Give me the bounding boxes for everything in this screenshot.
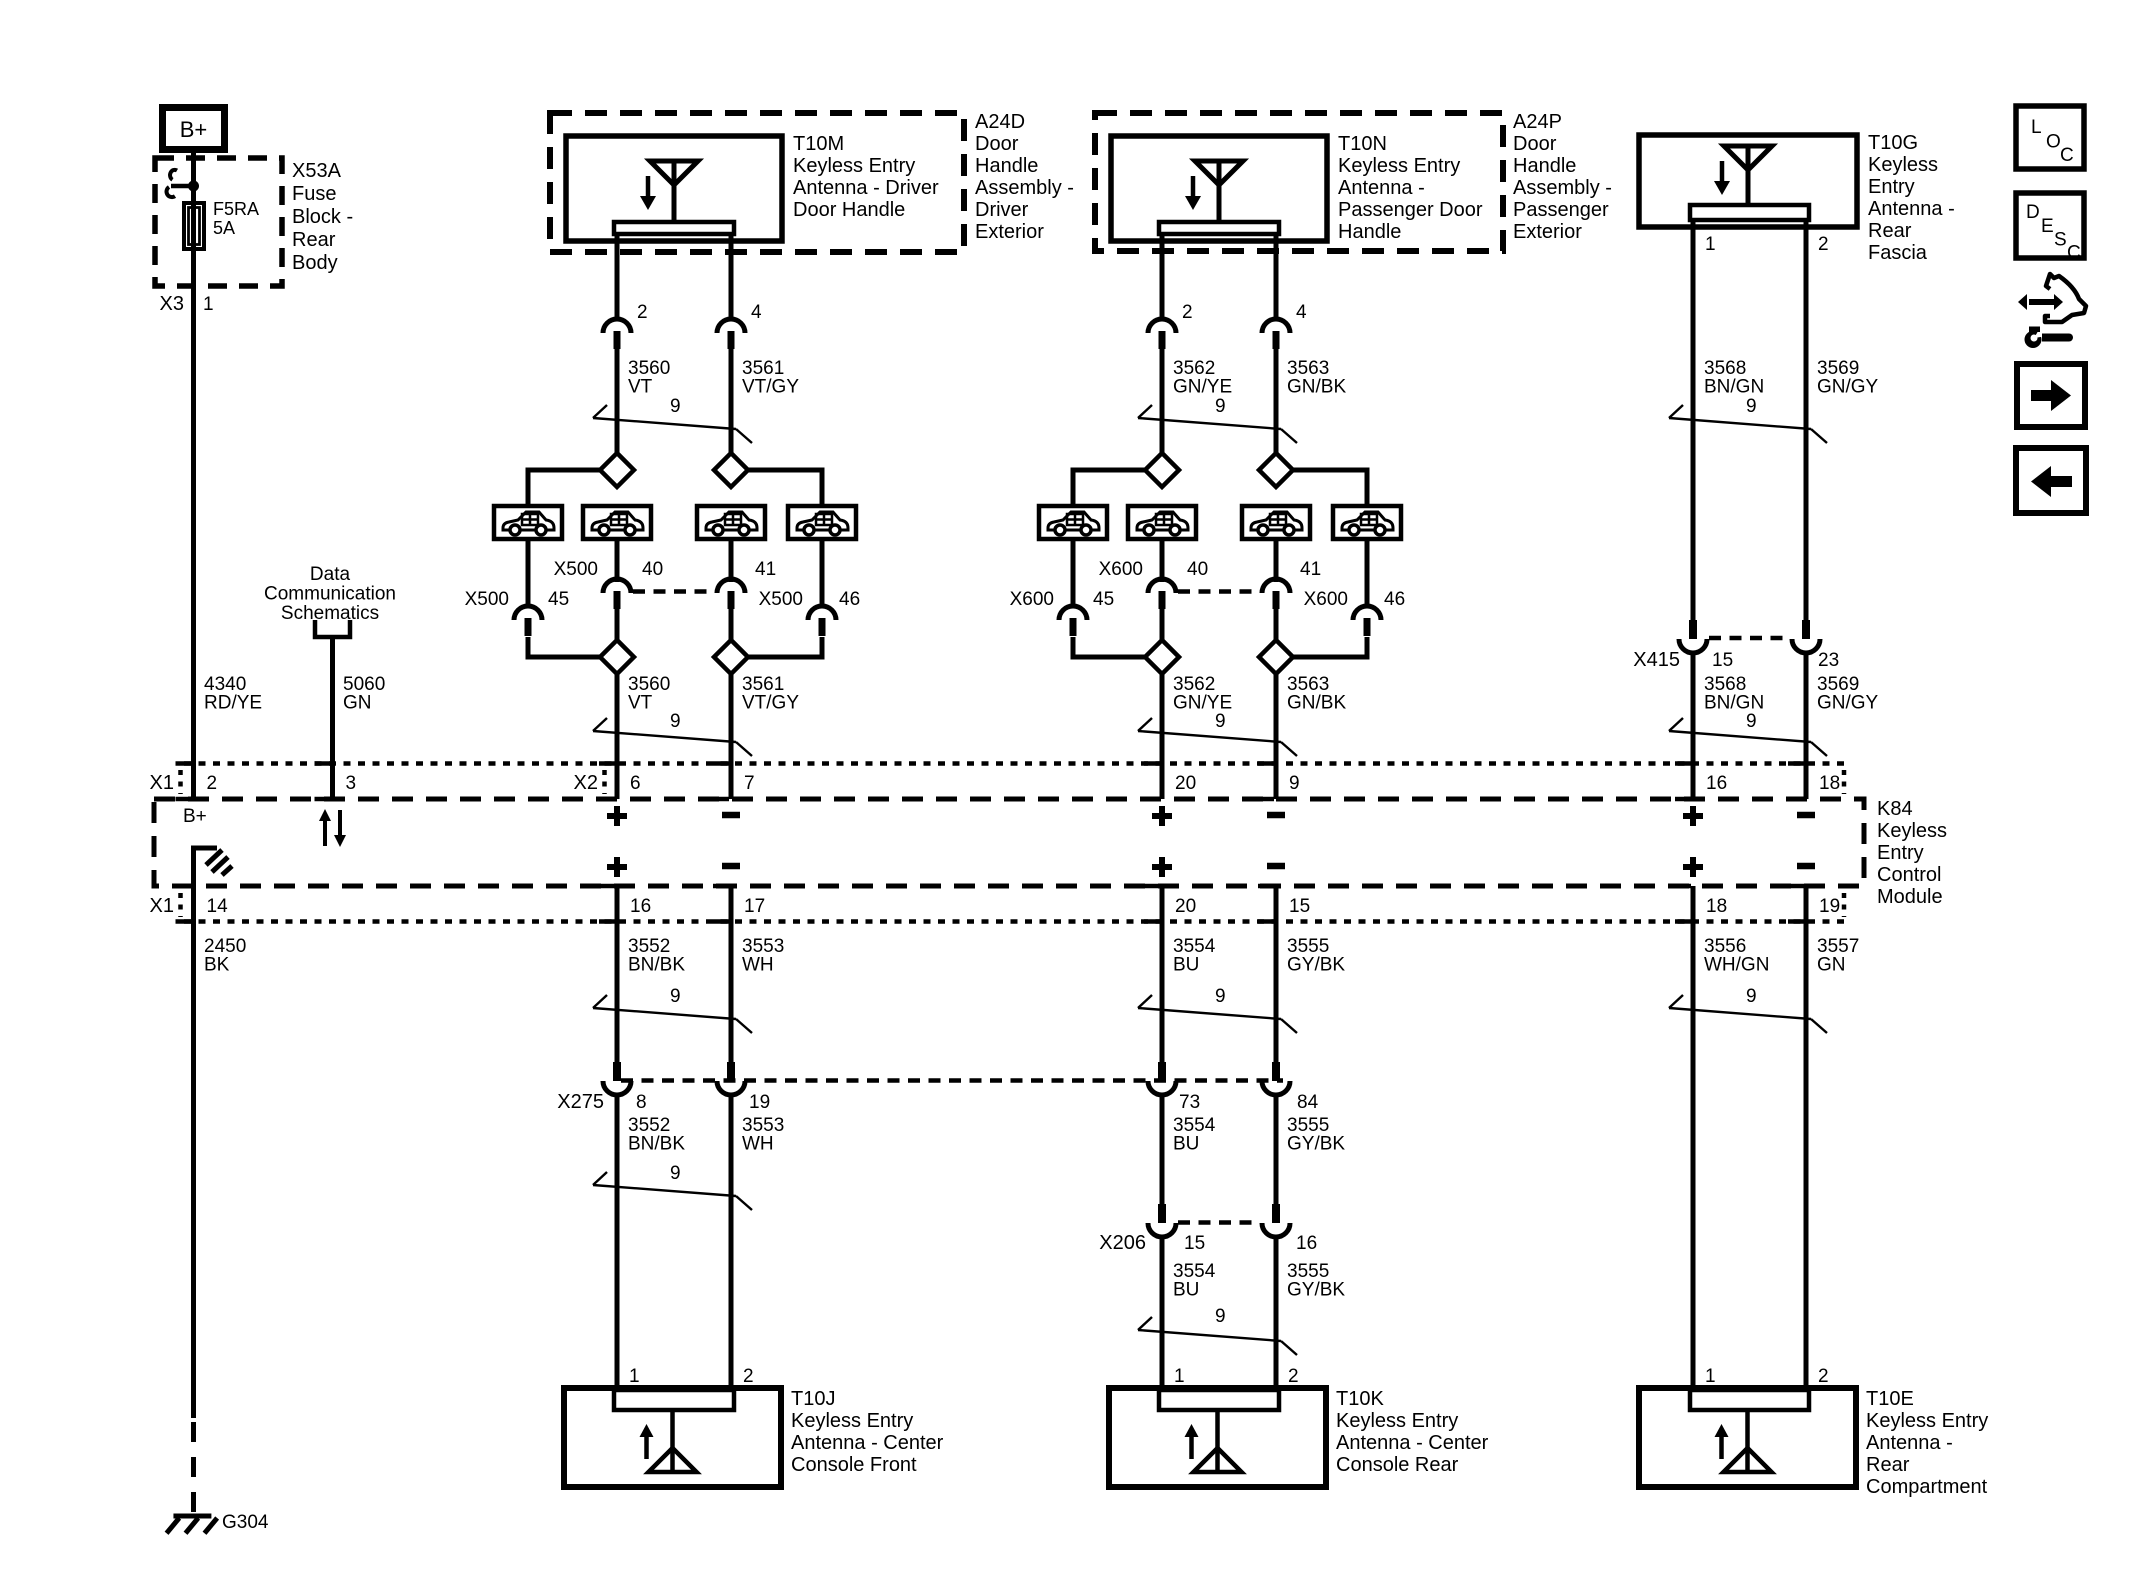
svg-text:X1: X1 bbox=[150, 772, 174, 794]
wire below car box bbox=[820, 539, 825, 608]
svg-text:X500: X500 bbox=[759, 589, 803, 610]
keyless entry antenna T10M box bbox=[566, 136, 782, 241]
branch wire rejoin right bbox=[748, 637, 822, 657]
connector label X3 pin 1 bbox=[160, 293, 214, 315]
wire below connector 41 bbox=[1274, 609, 1279, 641]
svg-text:BN/BK: BN/BK bbox=[628, 1134, 685, 1155]
svg-text:40: 40 bbox=[1187, 559, 1208, 580]
svg-text:T10J: T10J bbox=[791, 1388, 835, 1410]
keyless entry antenna T10G box bbox=[1639, 135, 1857, 227]
wire from antenna pin 4 bbox=[1274, 234, 1279, 319]
wire X275-8 to T10J pin 1 bbox=[615, 1095, 620, 1388]
label X600 45 bbox=[1010, 589, 1115, 610]
wire below car box bbox=[1365, 539, 1370, 608]
svg-text:9: 9 bbox=[670, 396, 681, 417]
in-line connector X275 terminal bbox=[717, 1062, 745, 1095]
wire below connector 40 bbox=[1160, 609, 1165, 641]
svg-text:9: 9 bbox=[1215, 711, 1226, 732]
off-page connector bracket bbox=[315, 620, 350, 637]
svg-text:Console Front: Console Front bbox=[791, 1454, 917, 1476]
svg-text:GN: GN bbox=[1817, 955, 1846, 976]
svg-text:C: C bbox=[2060, 145, 2074, 166]
svg-text:Antenna - Center: Antenna - Center bbox=[1336, 1432, 1489, 1454]
twisted pair symbol bbox=[593, 405, 752, 443]
wire X275-84 to X206 bbox=[1274, 1095, 1279, 1204]
svg-text:RD/YE: RD/YE bbox=[204, 693, 262, 714]
svg-text:20: 20 bbox=[1175, 896, 1196, 917]
module pin 18 tick and number (bottom row) bbox=[1675, 886, 1727, 922]
branch wire rejoin left bbox=[1073, 637, 1145, 657]
dotted separator (top row right) bbox=[1842, 770, 1847, 794]
svg-text:BK: BK bbox=[204, 955, 230, 976]
module antenna return - (pin side) bbox=[1267, 812, 1285, 819]
module pin 2 tick and number (top row) bbox=[176, 764, 218, 800]
svg-text:A24D: A24D bbox=[975, 111, 1025, 133]
wire from module to in-line connector bbox=[729, 886, 734, 1062]
svg-text:Keyless Entry: Keyless Entry bbox=[1338, 155, 1460, 177]
wire 2450 BK from module pin X1-14 bbox=[191, 886, 196, 1418]
svg-text:16: 16 bbox=[1296, 1233, 1317, 1254]
svg-text:T10E: T10E bbox=[1866, 1388, 1914, 1410]
car routing box (left branch) bbox=[1039, 506, 1107, 539]
svg-text:Antenna -: Antenna - bbox=[1338, 177, 1425, 199]
splice diamond bbox=[1145, 453, 1179, 487]
car routing box (wire 1) bbox=[583, 506, 651, 539]
svg-text:4: 4 bbox=[1296, 302, 1307, 323]
nav icon forward arrow box bbox=[2017, 364, 2085, 427]
module antenna drive + (pin side) bbox=[1152, 813, 1172, 819]
twisted pair symbol bbox=[1669, 995, 1827, 1033]
wire below splice bbox=[1274, 674, 1279, 799]
splice diamond bbox=[600, 453, 634, 487]
svg-text:9: 9 bbox=[670, 711, 681, 732]
connector tab of T10M bbox=[614, 222, 734, 234]
twisted pair symbol bbox=[1669, 405, 1827, 443]
svg-text:B+: B+ bbox=[183, 806, 207, 827]
car routing box (left branch) bbox=[494, 506, 562, 539]
svg-text:X415: X415 bbox=[1633, 649, 1680, 671]
svg-text:3: 3 bbox=[346, 773, 357, 794]
svg-text:Antenna -: Antenna - bbox=[1866, 1432, 1953, 1454]
svg-text:Antenna - Center: Antenna - Center bbox=[791, 1432, 944, 1454]
in-line connector X500 cavity 40 bbox=[603, 579, 631, 609]
svg-text:B+: B+ bbox=[180, 117, 208, 142]
svg-text:1: 1 bbox=[1705, 234, 1716, 255]
svg-text:A24P: A24P bbox=[1513, 111, 1562, 133]
connector pin 2 bbox=[603, 319, 631, 349]
svg-text:VT: VT bbox=[628, 693, 653, 714]
svg-text:Exterior: Exterior bbox=[1513, 221, 1582, 243]
svg-text:6: 6 bbox=[630, 773, 641, 794]
svg-text:45: 45 bbox=[1093, 589, 1114, 610]
splice diamond bbox=[1145, 640, 1179, 674]
twisted pair symbol bbox=[1138, 718, 1297, 756]
keyless entry antenna T10J box bbox=[564, 1388, 781, 1487]
svg-text:T10G: T10G bbox=[1868, 132, 1918, 154]
connector tab of T10N bbox=[1159, 222, 1279, 234]
wire below car box bbox=[615, 539, 620, 582]
car routing box (wire 2) bbox=[1242, 506, 1310, 539]
svg-text:46: 46 bbox=[1384, 589, 1405, 610]
svg-text:7: 7 bbox=[744, 773, 755, 794]
svg-text:BU: BU bbox=[1173, 1280, 1199, 1301]
svg-text:73: 73 bbox=[1179, 1092, 1200, 1113]
svg-text:GN/BK: GN/BK bbox=[1287, 377, 1346, 398]
svg-text:19: 19 bbox=[1819, 896, 1840, 917]
svg-text:14: 14 bbox=[207, 896, 229, 917]
twisted pair symbol bbox=[1669, 718, 1827, 756]
svg-text:Keyless Entry: Keyless Entry bbox=[1866, 1410, 1988, 1432]
svg-text:GY/BK: GY/BK bbox=[1287, 955, 1345, 976]
wire segment to splice diamond bbox=[615, 349, 620, 453]
wire 3556 WH/GN to T10E bbox=[1691, 1062, 1696, 1388]
svg-text:Passenger: Passenger bbox=[1513, 199, 1609, 221]
svg-text:G304: G304 bbox=[222, 1512, 269, 1533]
wire from antenna pin 2 bbox=[1160, 234, 1165, 319]
svg-text:BN/GN: BN/GN bbox=[1704, 377, 1764, 398]
svg-text:Keyless Entry: Keyless Entry bbox=[793, 155, 915, 177]
svg-text:GY/BK: GY/BK bbox=[1287, 1134, 1345, 1155]
branch wire to left in-car run bbox=[528, 470, 600, 506]
label X500 40 41 bbox=[554, 559, 777, 580]
svg-text:WH: WH bbox=[742, 955, 774, 976]
svg-text:23: 23 bbox=[1818, 650, 1839, 671]
wire below car box bbox=[1071, 539, 1076, 608]
fuse block X53A dashed box bbox=[155, 158, 282, 286]
module pin 9 tick and number (top row) bbox=[1258, 764, 1300, 800]
in-line connector X206 dashed face bbox=[1178, 1220, 1260, 1225]
antenna symbol bbox=[1715, 1410, 1772, 1472]
splice diamond bbox=[714, 640, 748, 674]
twisted pair symbol bbox=[593, 995, 752, 1033]
wire X206-16 to T10K pin 2 bbox=[1274, 1237, 1279, 1388]
wire below splice bbox=[1160, 674, 1165, 799]
svg-text:84: 84 bbox=[1297, 1092, 1319, 1113]
keyless entry antenna T10N box bbox=[1111, 136, 1327, 241]
svg-text:Communication: Communication bbox=[264, 584, 396, 605]
svg-text:41: 41 bbox=[1300, 559, 1321, 580]
nav icon back arrow box bbox=[2016, 448, 2086, 513]
module pin 16 tick and number (bottom row) bbox=[599, 886, 651, 922]
in-line connector X600 cavity 40 bbox=[1148, 579, 1176, 609]
svg-text:X206: X206 bbox=[1099, 1232, 1146, 1254]
svg-text:Keyless Entry: Keyless Entry bbox=[791, 1410, 913, 1432]
module connector row dotted line (bottom) bbox=[184, 919, 1845, 924]
wire from module to in-line connector bbox=[1160, 886, 1165, 1062]
module internal ground bbox=[194, 848, 233, 886]
svg-text:BN/BK: BN/BK bbox=[628, 955, 685, 976]
svg-text:E: E bbox=[2041, 216, 2054, 237]
svg-text:9: 9 bbox=[1746, 986, 1757, 1007]
svg-text:17: 17 bbox=[744, 896, 765, 917]
svg-text:Data: Data bbox=[310, 564, 351, 585]
twisted pair symbol bbox=[1138, 995, 1297, 1033]
svg-text:Assembly -: Assembly - bbox=[1513, 177, 1612, 199]
svg-text:Rear: Rear bbox=[292, 229, 336, 251]
splice diamond bbox=[714, 453, 748, 487]
module antenna drive + (output side) bbox=[1152, 864, 1172, 870]
connector designator X1 (bottom row) bbox=[150, 893, 181, 917]
car routing box (right branch) bbox=[1333, 506, 1401, 539]
svg-text:40: 40 bbox=[642, 559, 663, 580]
antenna symbol bbox=[640, 161, 698, 222]
svg-text:T10M: T10M bbox=[793, 133, 844, 155]
module antenna return - (pin side) bbox=[722, 812, 740, 819]
connector tab of T10E bbox=[1690, 1390, 1809, 1410]
antenna symbol bbox=[1185, 161, 1243, 222]
nav icon DESC box bbox=[2016, 193, 2084, 264]
svg-text:Driver: Driver bbox=[975, 199, 1029, 221]
in-line connector X206 terminal bbox=[1148, 1204, 1176, 1237]
in-line connector X600 cavity 45 bbox=[1059, 606, 1087, 636]
svg-text:T10K: T10K bbox=[1336, 1388, 1384, 1410]
svg-text:Exterior: Exterior bbox=[975, 221, 1044, 243]
splice diamond bbox=[600, 640, 634, 674]
connector pin 4 bbox=[1262, 319, 1290, 349]
in-line connector X600 cavity 41 bbox=[1262, 579, 1290, 609]
module pin 14 tick and number (bottom row) bbox=[176, 886, 229, 922]
svg-text:X600: X600 bbox=[1304, 589, 1348, 610]
in-line connector X600 cavity 46 bbox=[1353, 606, 1381, 636]
wire X275-19 to T10J pin 2 bbox=[729, 1095, 734, 1388]
connector designator X1 (top row) bbox=[150, 770, 181, 794]
svg-text:18: 18 bbox=[1706, 896, 1727, 917]
svg-text:F5RA: F5RA bbox=[213, 199, 259, 219]
module antenna return - (pin side) bbox=[1797, 812, 1815, 819]
wire below car box bbox=[729, 539, 734, 582]
svg-text:X600: X600 bbox=[1010, 589, 1054, 610]
svg-text:GN/GY: GN/GY bbox=[1817, 693, 1879, 714]
svg-text:Body: Body bbox=[292, 252, 338, 274]
label X275 73 84 bbox=[1179, 1092, 1319, 1113]
module internal serial data arrows bbox=[319, 809, 346, 847]
svg-text:BU: BU bbox=[1173, 1134, 1199, 1155]
svg-text:9: 9 bbox=[670, 1163, 681, 1184]
svg-text:X500: X500 bbox=[554, 559, 598, 580]
svg-text:Keyless: Keyless bbox=[1868, 154, 1938, 176]
svg-text:L: L bbox=[2031, 117, 2042, 138]
svg-text:Antenna - Driver: Antenna - Driver bbox=[793, 177, 939, 199]
dotted separator (bottom row right) bbox=[1842, 893, 1847, 917]
svg-text:1: 1 bbox=[1174, 1366, 1185, 1387]
wire below car box bbox=[526, 539, 531, 608]
car routing box (right branch) bbox=[788, 506, 856, 539]
in-line connector X500 dashed face bbox=[633, 589, 715, 594]
wire from module to in-line connector bbox=[1691, 886, 1696, 1062]
svg-text:Fascia: Fascia bbox=[1868, 242, 1928, 264]
connector tab of T10G bbox=[1690, 205, 1809, 220]
svg-text:2: 2 bbox=[637, 302, 648, 323]
module antenna drive + (output side) bbox=[607, 864, 627, 870]
wire below connector 40 bbox=[615, 609, 620, 641]
module pin 6 tick and number (top row) bbox=[599, 764, 641, 800]
dashed continuation of ground wire bbox=[191, 1422, 196, 1512]
svg-text:WH/GN: WH/GN bbox=[1704, 955, 1769, 976]
connector tab of T10J bbox=[614, 1390, 734, 1410]
module antenna drive + (pin side) bbox=[607, 813, 627, 819]
svg-text:4: 4 bbox=[751, 302, 762, 323]
module pin 7 tick and number (top row) bbox=[713, 764, 755, 800]
svg-text:Door: Door bbox=[975, 133, 1019, 155]
door handle assembly dashed box A24P bbox=[1095, 113, 1503, 251]
in-line connector X500 cavity 45 bbox=[514, 606, 542, 636]
module K84 dashed outline bbox=[154, 799, 1864, 886]
wire segment to splice diamond bbox=[729, 349, 734, 453]
svg-text:41: 41 bbox=[755, 559, 776, 580]
svg-text:2: 2 bbox=[1818, 234, 1829, 255]
svg-text:Rear: Rear bbox=[1866, 1454, 1910, 1476]
in-line connector X275 terminal bbox=[1262, 1062, 1290, 1095]
wire X415 to module pin 16 bbox=[1691, 652, 1696, 799]
svg-text:D: D bbox=[2026, 202, 2040, 223]
svg-text:X1: X1 bbox=[150, 895, 174, 917]
wire 3568 BN/GN from T10G pin 1 bbox=[1691, 220, 1696, 620]
twisted pair symbol bbox=[593, 1172, 752, 1210]
svg-text:15: 15 bbox=[1289, 896, 1310, 917]
label X600 46 bbox=[1304, 589, 1406, 610]
svg-text:Keyless Entry: Keyless Entry bbox=[1336, 1410, 1458, 1432]
svg-text:Rear: Rear bbox=[1868, 220, 1912, 242]
wire segment to splice diamond bbox=[1160, 349, 1165, 453]
svg-text:Keyless: Keyless bbox=[1877, 820, 1947, 842]
svg-text:X3: X3 bbox=[160, 293, 184, 315]
branch wire to left in-car run bbox=[1073, 470, 1145, 506]
svg-text:15: 15 bbox=[1184, 1233, 1205, 1254]
branch wire rejoin right bbox=[1293, 637, 1367, 657]
svg-text:2: 2 bbox=[743, 1366, 754, 1387]
door handle assembly dashed box A24D bbox=[550, 113, 964, 252]
splice diamond bbox=[1259, 640, 1293, 674]
svg-text:X275: X275 bbox=[557, 1091, 604, 1113]
svg-text:2: 2 bbox=[1182, 302, 1193, 323]
svg-text:9: 9 bbox=[1746, 711, 1757, 732]
svg-text:2: 2 bbox=[1818, 1366, 1829, 1387]
connector tab of T10K bbox=[1159, 1390, 1279, 1410]
svg-text:VT/GY: VT/GY bbox=[742, 693, 799, 714]
svg-text:Compartment: Compartment bbox=[1866, 1476, 1988, 1498]
svg-text:X500: X500 bbox=[465, 589, 509, 610]
wire from module to in-line connector bbox=[1274, 886, 1279, 1062]
wire 3557 GN to T10E bbox=[1804, 1062, 1809, 1388]
wire X415 to module pin 18 bbox=[1804, 652, 1809, 799]
module antenna return - (output side) bbox=[1797, 863, 1815, 870]
svg-text:9: 9 bbox=[1215, 1306, 1226, 1327]
svg-text:9: 9 bbox=[1215, 396, 1226, 417]
svg-text:Handle: Handle bbox=[975, 155, 1038, 177]
svg-text:S: S bbox=[2054, 230, 2067, 251]
svg-text:GN: GN bbox=[343, 693, 372, 714]
fuse F5RA 5A bbox=[184, 203, 204, 249]
car routing box (wire 2) bbox=[697, 506, 765, 539]
ground G304 bbox=[167, 1516, 218, 1533]
module antenna drive + (pin side) bbox=[1683, 813, 1703, 819]
wire from antenna pin 4 bbox=[729, 234, 734, 319]
svg-text:1: 1 bbox=[629, 1366, 640, 1387]
label X600 40 41 bbox=[1099, 559, 1322, 580]
wire from module to in-line connector bbox=[615, 886, 620, 1062]
wire X275-73 to X206 bbox=[1160, 1095, 1165, 1204]
svg-text:GN/YE: GN/YE bbox=[1173, 377, 1232, 398]
svg-text:19: 19 bbox=[749, 1092, 770, 1113]
module pin 20 tick and number (bottom row) bbox=[1144, 886, 1196, 922]
in-line connector X415 cavity 23 bbox=[1792, 620, 1820, 653]
wire below car box bbox=[1160, 539, 1165, 582]
svg-text:20: 20 bbox=[1175, 773, 1196, 794]
module antenna return - (output side) bbox=[722, 863, 740, 870]
svg-text:1: 1 bbox=[203, 294, 214, 315]
in-line connector X275 dashed face bbox=[621, 1078, 1283, 1083]
module pin 15 tick and number (bottom row) bbox=[1258, 886, 1310, 922]
keyless entry antenna T10E box bbox=[1639, 1388, 1856, 1487]
in-line connector X415 cavity 15 bbox=[1679, 620, 1707, 653]
svg-text:Assembly -: Assembly - bbox=[975, 177, 1074, 199]
wire below connector 41 bbox=[729, 609, 734, 641]
splice diamond bbox=[1259, 453, 1293, 487]
svg-text:VT/GY: VT/GY bbox=[742, 377, 799, 398]
keyless entry antenna T10K box bbox=[1109, 1388, 1326, 1487]
twisted pair symbol bbox=[593, 718, 752, 756]
wire segment to splice diamond bbox=[1274, 349, 1279, 453]
nav icon compare/repair (arrow, fender outline, wrench) bbox=[2018, 274, 2086, 348]
branch wire to right in-car run bbox=[1293, 470, 1367, 506]
svg-text:Entry: Entry bbox=[1877, 842, 1924, 864]
car routing box (wire 1) bbox=[1128, 506, 1196, 539]
svg-text:X2: X2 bbox=[574, 772, 598, 794]
junction dot bbox=[188, 181, 199, 192]
module pin 19 tick and number (bottom row) bbox=[1788, 886, 1840, 922]
connector designator X2 (top row) bbox=[574, 770, 605, 794]
svg-text:2: 2 bbox=[1288, 1366, 1299, 1387]
battery feed symbol B+ bbox=[163, 108, 225, 150]
svg-text:18: 18 bbox=[1819, 773, 1840, 794]
svg-text:C: C bbox=[2067, 243, 2081, 264]
wire from antenna pin 2 bbox=[615, 234, 620, 319]
module pin 3 tick and number (top row) bbox=[315, 764, 357, 800]
svg-text:GY/BK: GY/BK bbox=[1287, 1280, 1345, 1301]
label X275 8 19 bbox=[557, 1091, 770, 1113]
antenna symbol bbox=[1714, 146, 1772, 205]
module pin 16 tick and number (top row) bbox=[1675, 764, 1727, 800]
svg-text:8: 8 bbox=[636, 1092, 647, 1113]
svg-text:46: 46 bbox=[839, 589, 860, 610]
svg-text:Handle: Handle bbox=[1338, 221, 1401, 243]
svg-text:45: 45 bbox=[548, 589, 569, 610]
antenna symbol bbox=[1185, 1410, 1242, 1472]
svg-text:Handle: Handle bbox=[1513, 155, 1576, 177]
antenna symbol bbox=[640, 1410, 697, 1472]
svg-text:Block -: Block - bbox=[292, 206, 353, 228]
svg-text:16: 16 bbox=[630, 896, 651, 917]
in-line connector X500 cavity 46 bbox=[808, 606, 836, 636]
svg-text:9: 9 bbox=[1289, 773, 1300, 794]
in-line connector X600 dashed face bbox=[1178, 589, 1260, 594]
svg-text:O: O bbox=[2046, 132, 2061, 153]
module pin 17 tick and number (bottom row) bbox=[713, 886, 765, 922]
connector pin 4 bbox=[717, 319, 745, 349]
svg-text:Entry: Entry bbox=[1868, 176, 1915, 198]
in-line connector X275 terminal bbox=[1148, 1062, 1176, 1095]
twisted pair symbol bbox=[1138, 1317, 1297, 1355]
in-line connector X206 terminal bbox=[1262, 1204, 1290, 1237]
svg-text:GN/GY: GN/GY bbox=[1817, 377, 1879, 398]
twisted pair symbol bbox=[1138, 405, 1297, 443]
label X500 46 bbox=[759, 589, 861, 610]
svg-text:16: 16 bbox=[1706, 773, 1727, 794]
label X415 15 23 bbox=[1633, 649, 1839, 671]
svg-text:Door Handle: Door Handle bbox=[793, 199, 905, 221]
svg-text:T10N: T10N bbox=[1338, 133, 1387, 155]
module antenna return - (output side) bbox=[1267, 863, 1285, 870]
